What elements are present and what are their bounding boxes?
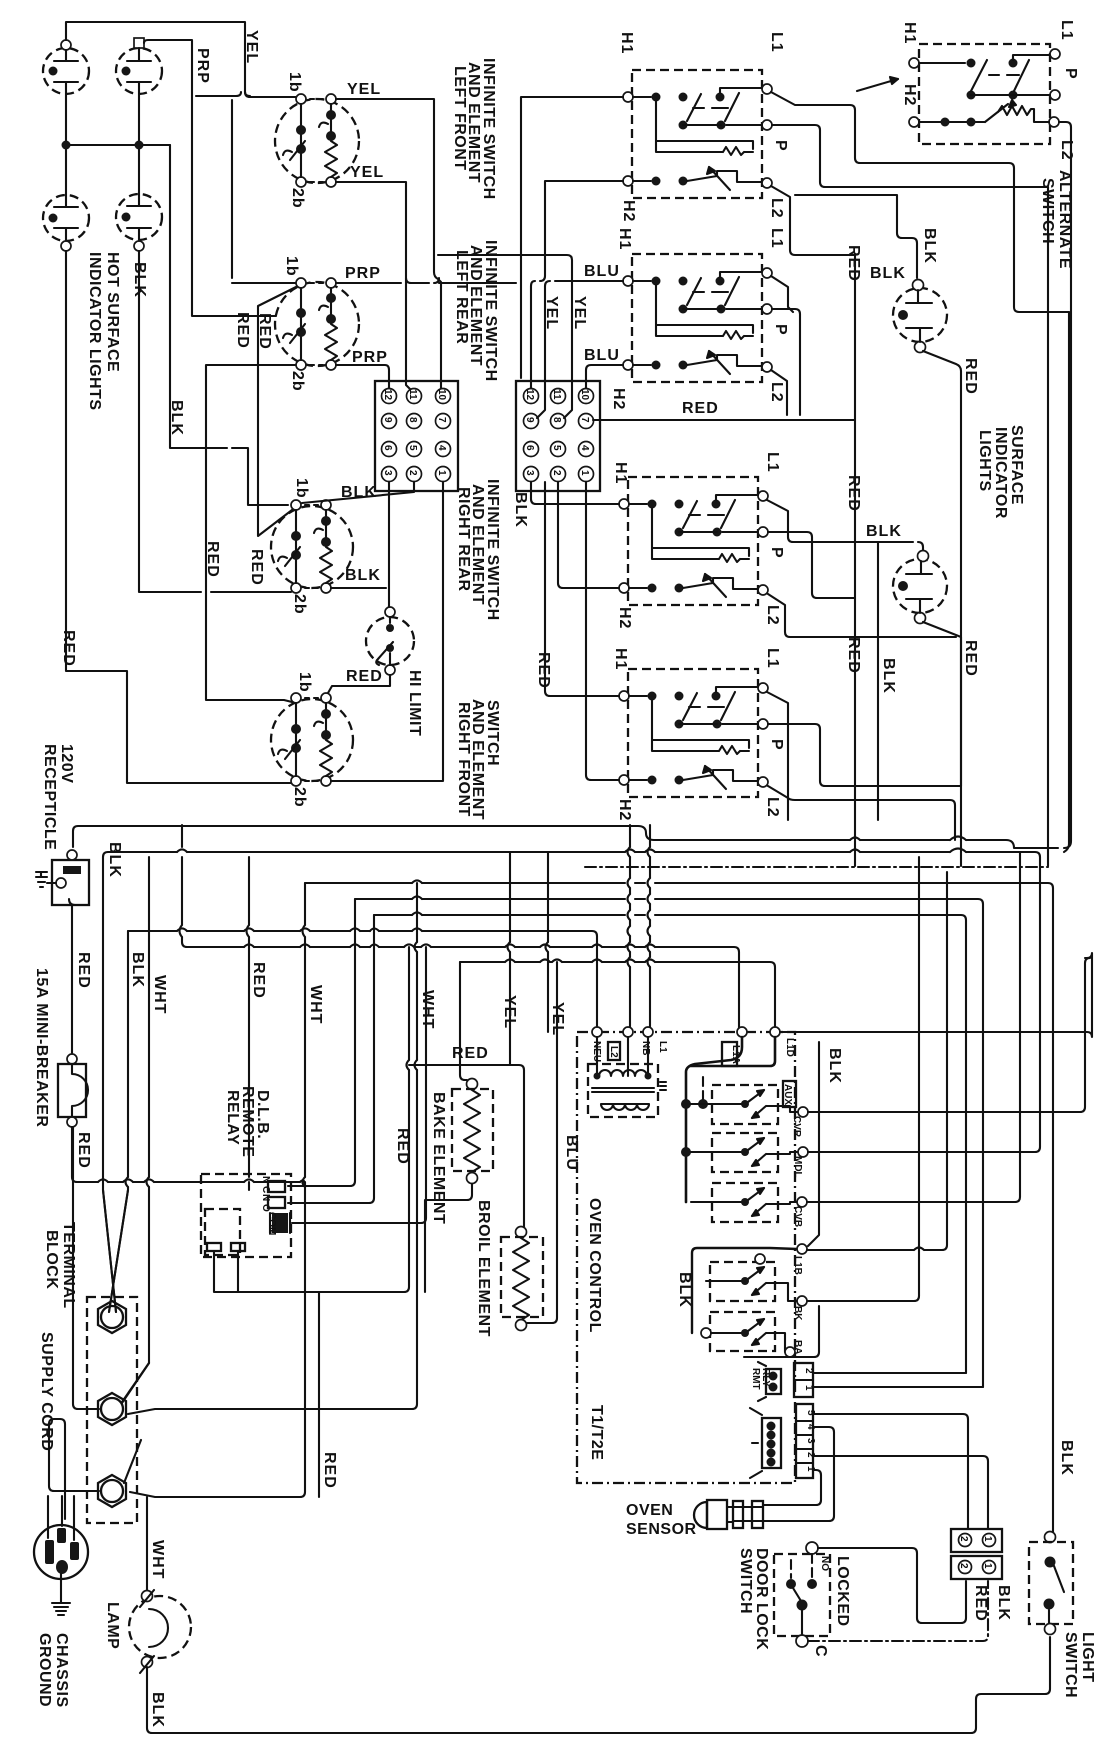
svg-text:BROIL ELEMENT: BROIL ELEMENT — [475, 1200, 492, 1337]
svg-text:11: 11 — [407, 389, 418, 400]
svg-text:L2: L2 — [764, 797, 781, 818]
relay contact b4 — [706, 1254, 807, 1306]
svg-text:YEL: YEL — [243, 30, 260, 64]
svg-text:RMT: RMT — [750, 1368, 761, 1390]
svg-text:3: 3 — [805, 1438, 816, 1444]
svg-text:YEL: YEL — [347, 81, 381, 98]
svg-text:RED: RED — [75, 952, 92, 989]
svg-text:DOOR LOCK: DOOR LOCK — [753, 1548, 770, 1650]
wire light2 bottom chain — [923, 622, 961, 786]
supply cord crossing wires — [103, 1190, 128, 1312]
wire H9 y962 — [460, 962, 775, 1030]
right connector block pins 1-12 — [516, 381, 600, 491]
svg-text:P: P — [768, 739, 785, 751]
wire WHT x417 — [128, 883, 417, 1414]
connector pair blocks — [951, 1529, 1002, 1552]
svg-text:RED: RED — [394, 1128, 411, 1165]
svg-text:MDL: MDL — [792, 1156, 803, 1178]
wire BLK into light 1 — [795, 195, 917, 278]
svg-text:RED: RED — [75, 1132, 92, 1169]
svg-text:P: P — [1062, 68, 1079, 80]
wire PRP bottom from LR 2b to pin 12 — [336, 365, 389, 388]
surface switch box 2 — [623, 254, 772, 382]
wire PRP net from light B down left column — [144, 40, 276, 316]
svg-text:10: 10 — [436, 389, 447, 401]
svg-text:H1: H1 — [901, 22, 918, 44]
svg-text:RED: RED — [535, 652, 552, 689]
svg-text:N C: N C — [260, 1176, 271, 1193]
svg-text:C: C — [812, 1645, 829, 1658]
SECTION: DLB remote relay — [201, 1174, 291, 1257]
svg-text:RED: RED — [256, 313, 273, 350]
wire x374 relay NO — [288, 915, 374, 1203]
wire door lock NO to connector — [818, 1548, 966, 1623]
wire RED x460 to bake top — [460, 962, 467, 1080]
svg-text:H1: H1 — [612, 462, 629, 484]
oven lamp — [129, 1590, 191, 1673]
wire box2 P down to RED line — [772, 309, 800, 415]
svg-text:CHASSIS: CHASSIS — [53, 1633, 70, 1708]
wires RMT RLY up-right — [813, 1373, 983, 1387]
svg-text:RED: RED — [972, 1585, 989, 1622]
svg-text:OVEN CONTROL: OVEN CONTROL — [586, 1198, 603, 1333]
wire x355 relay NC — [288, 899, 355, 1186]
svg-text:BLK: BLK — [866, 523, 902, 540]
svg-text:INDICATOR LIGHTS: INDICATOR LIGHTS — [86, 252, 103, 411]
svg-text:BA: BA — [792, 1340, 803, 1354]
svg-text:LEFT REAR: LEFT REAR — [453, 250, 470, 344]
wire breaker to terminal block — [72, 1127, 305, 1187]
wire BLK into light 2 — [918, 542, 923, 552]
svg-text:BLU: BLU — [584, 263, 620, 280]
wire box3 L2 chain to light2 bottom — [768, 594, 956, 637]
svg-text:12: 12 — [382, 389, 393, 401]
svg-text:11: 11 — [551, 389, 562, 400]
wire pin2 diagonal to right-rear 1b — [302, 482, 414, 503]
svg-text:1b: 1b — [283, 256, 300, 277]
wire H1 y825 — [73, 826, 1058, 848]
wire YEL net from light A to LF switch 1b — [66, 22, 296, 97]
wire pin 5 to box3 H2 — [558, 482, 619, 588]
svg-text:2b: 2b — [289, 188, 306, 209]
svg-text:BLK: BLK — [1058, 1440, 1075, 1476]
wire YEL x548 — [547, 852, 549, 1032]
svg-text:2b: 2b — [289, 371, 306, 392]
svg-text:LEFT FRONT: LEFT FRONT — [451, 66, 468, 171]
svg-text:L1: L1 — [1058, 20, 1075, 41]
svg-text:LAMP: LAMP — [104, 1602, 121, 1649]
svg-text:L1D: L1D — [784, 1038, 795, 1057]
svg-text:1: 1 — [982, 1563, 993, 1569]
terminal block — [87, 1297, 137, 1523]
svg-text:H2: H2 — [616, 799, 633, 821]
wire door lock C to connector — [808, 1581, 988, 1641]
svg-text:8: 8 — [551, 417, 562, 423]
svg-text:BLU: BLU — [584, 347, 620, 364]
svg-text:SWITCH: SWITCH — [1062, 1632, 1079, 1698]
svg-text:WHT: WHT — [151, 975, 168, 1014]
broil element — [501, 1227, 543, 1331]
svg-text:H1: H1 — [616, 228, 633, 250]
wire WHT x305 — [130, 883, 305, 1497]
wire H7 y931 — [128, 931, 597, 1030]
wire WHT x426 relay COM — [292, 947, 426, 1223]
wires 5-pin out — [813, 1414, 968, 1529]
svg-text:T1/T2E: T1/T2E — [588, 1405, 605, 1460]
svg-text:L2: L2 — [768, 198, 785, 219]
svg-text:NB: NB — [640, 1041, 651, 1055]
svg-text:WHT: WHT — [419, 990, 436, 1029]
wire YEL top from LF switch to pin 10 — [336, 99, 443, 391]
wire hex3 left — [49, 1419, 99, 1519]
svg-text:RLY: RLY — [760, 1368, 771, 1387]
svg-text:L1B: L1B — [792, 1256, 803, 1275]
wire hex2 left — [73, 1127, 99, 1409]
svg-text:2: 2 — [958, 1563, 969, 1569]
svg-text:9: 9 — [382, 417, 393, 423]
svg-text:RED: RED — [845, 637, 862, 674]
wire RED pair left-rear to right-rear — [258, 287, 296, 536]
indicator light A — [43, 40, 89, 94]
svg-text:5: 5 — [407, 445, 418, 451]
svg-text:NO: NO — [819, 1556, 830, 1571]
wire H4 y883 — [305, 883, 1053, 1532]
svg-text:RED: RED — [682, 400, 719, 417]
svg-text:BLK: BLK — [131, 262, 148, 298]
wire box4 L1 down to bus — [767, 692, 788, 820]
svg-text:L2: L2 — [1058, 140, 1075, 161]
wire BLK from light D to right-rear 2b — [139, 251, 291, 592]
svg-text:BK: BK — [792, 1306, 803, 1321]
surface switch box 3 — [619, 477, 768, 605]
wire drop x182 from H1 — [182, 825, 187, 947]
svg-text:BLK: BLK — [129, 952, 146, 988]
dash crossover wire right mid — [585, 866, 1048, 868]
svg-text:L1: L1 — [768, 228, 785, 249]
svg-text:BLK: BLK — [921, 228, 938, 264]
svg-text:BLK: BLK — [106, 842, 123, 878]
svg-text:RIGHT FRONT: RIGHT FRONT — [455, 702, 472, 817]
svg-text:BLK: BLK — [345, 567, 381, 584]
oven control top terminals — [592, 1027, 602, 1037]
surface switch box 1 — [623, 70, 772, 198]
wire RED left edge from light C — [66, 251, 291, 783]
wire H5 y899 — [355, 899, 983, 1387]
svg-text:BAKE ELEMENT: BAKE ELEMENT — [430, 1092, 447, 1224]
surface indicator light 1 — [893, 280, 947, 353]
wire alternate L2 to giant right vertical — [1059, 122, 1071, 848]
svg-text:12: 12 — [524, 389, 535, 401]
wire RED from pin 7 to right — [593, 419, 855, 421]
svg-text:RED: RED — [845, 245, 862, 282]
svg-text:H1: H1 — [618, 32, 635, 54]
arrow to alternate switch — [857, 79, 898, 91]
svg-text:RED: RED — [845, 475, 862, 512]
wire H6 y915 — [374, 915, 966, 1373]
svg-text:RELAY: RELAY — [224, 1090, 241, 1145]
svg-text:RED: RED — [234, 312, 251, 349]
svg-text:BLU: BLU — [563, 1135, 580, 1171]
svg-text:2b: 2b — [291, 787, 308, 808]
svg-text:H2: H2 — [610, 388, 627, 410]
svg-text:7: 7 — [436, 417, 447, 423]
wire lamp BLK bottom run — [147, 1637, 1050, 1733]
svg-text:3: 3 — [524, 470, 535, 476]
oven sensor — [694, 1500, 763, 1529]
svg-text:L1: L1 — [657, 1041, 668, 1053]
wires relay coils down — [214, 1251, 404, 1292]
wire box2 L2 down to RED line — [771, 370, 787, 415]
wire H8 y947 — [187, 947, 739, 1030]
wire pin 6 to box3 H1 — [531, 482, 619, 504]
wire box1 P chain to far right — [772, 125, 1048, 866]
wire crossover at y=96 feeding left-rear 1b — [196, 92, 296, 283]
wire box3 L1 to BLK cross — [767, 500, 913, 542]
relay contact b5 — [701, 1312, 790, 1352]
svg-text:HOT SURFACE: HOT SURFACE — [104, 252, 121, 372]
wire RED x249 — [248, 857, 250, 1190]
wire left-rear 2b-left down to right-front — [206, 365, 296, 702]
wire right-rear 2b-right to hi-limit column — [331, 587, 386, 589]
wire hi-limit to right-front top — [328, 675, 390, 693]
wire pin3 to hi-limit — [388, 482, 390, 607]
infinite switch left rear — [275, 278, 359, 370]
svg-text:1: 1 — [803, 1385, 814, 1391]
svg-text:H2: H2 — [901, 84, 918, 106]
svg-text:YEL: YEL — [501, 995, 518, 1029]
svg-text:PRP: PRP — [194, 48, 211, 84]
svg-text:6: 6 — [524, 445, 535, 451]
transformer — [588, 1037, 666, 1117]
svg-text:BLK: BLK — [870, 265, 906, 282]
wire box2 H2 BLU to pin 10 — [586, 365, 623, 388]
svg-text:RIGHT REAR: RIGHT REAR — [455, 487, 472, 592]
svg-text:YEL: YEL — [350, 164, 384, 181]
svg-text:SWITCH: SWITCH — [737, 1548, 754, 1614]
svg-text:PRP: PRP — [345, 265, 381, 282]
transformer feed verticals with crossing loops — [629, 825, 631, 1030]
wire BLK x128 — [109, 931, 128, 1312]
svg-text:P: P — [772, 324, 789, 336]
wire RED vertical x855 — [854, 255, 856, 866]
oven control box — [577, 1032, 795, 1483]
SECTION: alternate switch — [909, 44, 1060, 144]
svg-text:BLK: BLK — [168, 400, 185, 436]
svg-text:YEL: YEL — [543, 296, 560, 330]
door lock switch — [774, 1542, 830, 1647]
infinite switch right rear — [271, 500, 353, 593]
svg-text:2: 2 — [958, 1536, 969, 1542]
wire BLU x557 to broil bottom — [527, 962, 557, 1323]
svg-text:CVR: CVR — [791, 1116, 802, 1138]
heavy bus in oven control — [686, 1037, 742, 1202]
wire cross feed to pin 8 — [438, 255, 572, 418]
indicator light C — [43, 195, 89, 251]
infinite switch right front — [271, 693, 353, 786]
svg-text:SURFACE: SURFACE — [1008, 425, 1025, 505]
indicator light D — [116, 194, 162, 251]
wire light1 bottom to RED vertical — [923, 351, 961, 866]
svg-text:1b: 1b — [296, 672, 313, 693]
svg-text:OVEN: OVEN — [626, 1502, 673, 1519]
wire YEL x510 — [509, 852, 511, 1065]
light switch — [1029, 1532, 1073, 1635]
120V receptacle — [36, 850, 89, 905]
wire box3 P chain — [768, 532, 855, 598]
wire BLK diagonal into L1B — [808, 1042, 819, 1246]
surface indicator light 2 — [893, 551, 947, 624]
wire PRP top from LR switch over to right — [336, 282, 516, 284]
relay contact b2 — [691, 1133, 808, 1172]
svg-text:1: 1 — [436, 470, 447, 476]
wire supply to lamp — [146, 1497, 148, 1591]
svg-text:L2: L2 — [608, 1046, 619, 1058]
svg-text:RED: RED — [204, 541, 221, 578]
wire BK to right nest — [808, 857, 919, 1301]
svg-text:YEL: YEL — [571, 296, 588, 330]
wire box1 L2 chain down — [771, 186, 855, 255]
svg-text:9: 9 — [524, 417, 535, 423]
svg-text:120V: 120V — [58, 744, 75, 783]
svg-text:RED: RED — [250, 962, 267, 999]
svg-text:BLOCK: BLOCK — [43, 1230, 60, 1289]
svg-text:GROUND: GROUND — [36, 1633, 53, 1707]
wire to box4 H1 — [545, 482, 619, 696]
svg-text:RED: RED — [452, 1045, 489, 1062]
wire receptacle to breaker — [71, 905, 73, 1053]
svg-text:P: P — [772, 140, 789, 152]
svg-text:L1: L1 — [764, 648, 781, 669]
15A mini-breaker — [58, 1054, 88, 1127]
svg-text:RECEPTICLE: RECEPTICLE — [41, 744, 58, 850]
svg-text:3: 3 — [382, 470, 393, 476]
wire H2 y852 — [108, 852, 1040, 857]
left connector block pins 1-12 — [375, 381, 458, 491]
L1A terminal block — [722, 1042, 737, 1066]
svg-text:2b: 2b — [291, 594, 308, 615]
svg-text:N O: N O — [260, 1194, 271, 1212]
infinite switch left front — [275, 94, 359, 187]
svg-text:RED: RED — [321, 1452, 338, 1489]
svg-text:P: P — [768, 547, 785, 559]
svg-text:BLK: BLK — [826, 1048, 843, 1084]
svg-text:HI LIMIT: HI LIMIT — [406, 670, 423, 736]
wire to box4 H2 — [586, 482, 619, 780]
svg-text:8: 8 — [407, 417, 418, 423]
svg-text:BLK: BLK — [512, 492, 529, 528]
chassis ground plug — [34, 1496, 88, 1615]
svg-text:PRP: PRP — [352, 349, 388, 366]
hi limit thermostat — [366, 607, 414, 675]
svg-text:SWITCH: SWITCH — [1039, 178, 1056, 244]
svg-text:BLK: BLK — [149, 1692, 166, 1728]
wire box4 P chain — [768, 724, 961, 786]
wire L1B to right nest — [807, 872, 947, 1250]
wire BLK supply drop x103 — [103, 857, 116, 1312]
junction bus of lights — [66, 94, 170, 196]
wire BK out — [744, 1306, 819, 1357]
svg-text:1b: 1b — [293, 478, 310, 499]
relay contact b3 — [691, 1183, 807, 1222]
surface switch box 4 — [619, 669, 768, 797]
svg-text:RED: RED — [962, 640, 979, 677]
wire box2 H1 BLU to pin 12 — [531, 281, 623, 388]
svg-text:BLK: BLK — [995, 1585, 1012, 1621]
wire bake bottom — [425, 1184, 472, 1292]
svg-text:AUX: AUX — [782, 1084, 793, 1105]
svg-text:L2: L2 — [768, 382, 785, 403]
svg-text:LIGHTS: LIGHTS — [976, 430, 993, 492]
wire box1 H1 to connector top — [521, 97, 623, 378]
5 pin connector — [750, 1404, 816, 1478]
svg-text:INDICATOR: INDICATOR — [992, 427, 1009, 519]
wire box4 L2 to bus — [768, 786, 955, 840]
svg-text:LIGHT: LIGHT — [1079, 1632, 1096, 1683]
svg-text:BLK: BLK — [880, 658, 897, 694]
svg-text:SENSOR: SENSOR — [626, 1521, 697, 1538]
indicator light B — [116, 38, 162, 94]
wire pin1 down to right-front 2b — [331, 482, 443, 781]
svg-text:L1: L1 — [764, 452, 781, 473]
svg-text:10: 10 — [579, 389, 590, 401]
RMT RLY connector — [758, 1362, 814, 1401]
relay contact b1 — [691, 1085, 808, 1124]
svg-text:WHT: WHT — [307, 985, 324, 1024]
svg-text:6: 6 — [382, 445, 393, 451]
svg-text:SUPPLY CORD: SUPPLY CORD — [38, 1332, 55, 1451]
wire box1 H2 to pin 9 — [537, 181, 623, 418]
svg-text:1: 1 — [982, 1536, 993, 1542]
wire BLK vertical from junction — [170, 145, 288, 505]
svg-text:BLK: BLK — [676, 1272, 693, 1308]
svg-text:15A MINI-BREAKER: 15A MINI-BREAKER — [33, 968, 50, 1127]
svg-text:7: 7 — [579, 417, 590, 423]
wires oven control terminals to right nest — [807, 852, 1090, 1202]
svg-text:LOCKED: LOCKED — [834, 1556, 851, 1627]
svg-text:H2: H2 — [620, 200, 637, 222]
svg-text:2: 2 — [407, 470, 418, 476]
svg-text:1: 1 — [579, 470, 590, 476]
svg-text:TERMINAL: TERMINAL — [60, 1222, 77, 1309]
svg-text:L1: L1 — [768, 32, 785, 53]
svg-text:5: 5 — [551, 445, 562, 451]
svg-text:1b: 1b — [286, 72, 303, 93]
svg-text:RED: RED — [248, 549, 265, 586]
wire box2 L1 to big U right — [771, 276, 1069, 852]
wire RED x409 — [319, 947, 409, 1497]
bake element — [452, 1079, 493, 1184]
wire YEL bottom from LF 2b to pin 11 — [336, 182, 412, 391]
svg-text:2: 2 — [551, 470, 562, 476]
wire RED y1065 to broil top — [409, 1065, 524, 1227]
svg-text:H2: H2 — [616, 607, 633, 629]
wire WHT x149 — [122, 857, 149, 1402]
wire box1 L1 staircase to alternate switch area — [771, 92, 1069, 312]
svg-text:4: 4 — [436, 445, 447, 451]
svg-text:COM: COM — [266, 1212, 277, 1235]
L1B feeder — [692, 1248, 797, 1333]
svg-text:CVB: CVB — [792, 1206, 803, 1227]
svg-text:H1: H1 — [612, 648, 629, 670]
svg-text:RED: RED — [60, 630, 77, 667]
svg-text:L2: L2 — [764, 605, 781, 626]
svg-text:4: 4 — [579, 445, 590, 451]
wire BLK vertical x878 — [877, 542, 879, 820]
svg-text:RED: RED — [346, 668, 383, 685]
svg-text:RED: RED — [962, 358, 979, 395]
svg-text:WHT: WHT — [149, 1540, 166, 1579]
